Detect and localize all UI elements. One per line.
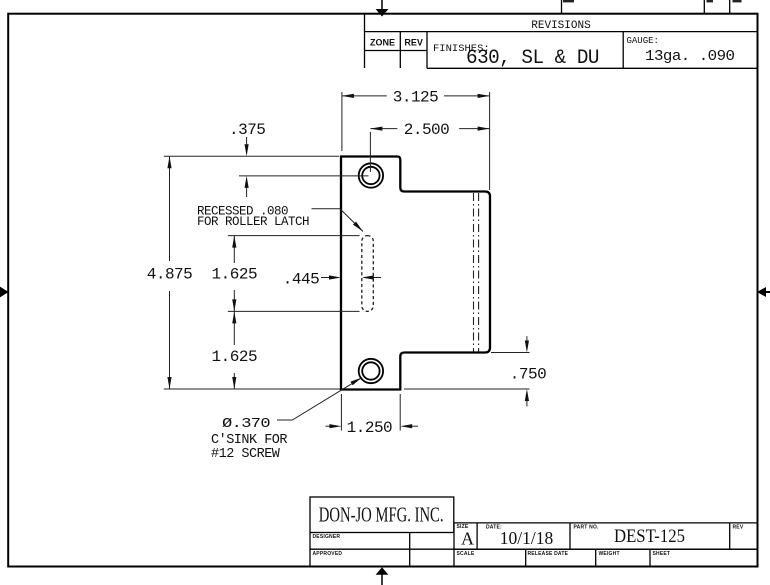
top cut-off text smudges <box>563 0 742 2</box>
svg-text:A: A <box>461 529 474 549</box>
right center marker <box>757 287 770 297</box>
svg-text:GAUGE:: GAUGE: <box>627 36 659 46</box>
svg-text:REV: REV <box>733 525 744 531</box>
svg-text:Ø.370: Ø.370 <box>222 417 270 432</box>
recess leader line <box>312 209 364 232</box>
svg-text:.375: .375 <box>229 121 265 139</box>
svg-text:.445: .445 <box>283 271 319 289</box>
svg-text:2.500: 2.500 <box>404 121 450 139</box>
left center marker <box>0 287 9 298</box>
svg-text:DESIGNER: DESIGNER <box>313 534 341 540</box>
svg-text:4.875: 4.875 <box>147 266 193 284</box>
bottom center marker <box>376 567 389 585</box>
svg-text:SHEET: SHEET <box>653 551 671 557</box>
bottom hole outer <box>359 359 383 383</box>
top hole inner <box>362 167 379 184</box>
svg-text:WEIGHT: WEIGHT <box>599 551 620 557</box>
hole leader line <box>277 378 362 421</box>
svg-text:3.125: 3.125 <box>393 89 439 107</box>
dimension 1.625 upper <box>228 236 360 312</box>
svg-text:1.625: 1.625 <box>212 266 258 284</box>
svg-text:630, SL & DU: 630, SL & DU <box>466 47 599 70</box>
svg-text:REV: REV <box>404 38 423 48</box>
top cut-off table remnant verticals <box>562 0 730 14</box>
recess dashed outline <box>362 236 374 312</box>
revisions table lines <box>365 14 757 69</box>
svg-text:#12 SCREW: #12 SCREW <box>211 447 281 462</box>
dimension 3.125 <box>342 92 490 190</box>
bottom hole inner <box>362 362 379 379</box>
bend line left <box>473 193 475 352</box>
svg-text:10/1/18: 10/1/18 <box>500 528 554 548</box>
svg-text:REVISIONS: REVISIONS <box>531 20 591 32</box>
title block lines <box>310 497 757 566</box>
svg-text:SCALE: SCALE <box>457 551 475 557</box>
svg-text:.750: .750 <box>510 366 546 384</box>
svg-text:DEST-125: DEST-125 <box>614 526 685 547</box>
top center marker <box>376 0 389 17</box>
dimension 1.250 <box>326 394 419 431</box>
svg-text:1.250: 1.250 <box>347 419 393 437</box>
dimension .750 <box>404 336 530 406</box>
dimension 1.625 lower <box>233 311 235 389</box>
svg-text:RELEASE DATE: RELEASE DATE <box>528 551 569 557</box>
svg-text:C'SINK FOR: C'SINK FOR <box>211 433 287 448</box>
svg-text:FOR ROLLER LATCH: FOR ROLLER LATCH <box>197 215 309 229</box>
svg-text:DON-JO MFG. INC.: DON-JO MFG. INC. <box>319 503 444 527</box>
svg-text:APPROVED: APPROVED <box>313 551 343 557</box>
top hole outer <box>359 163 383 187</box>
svg-text:1.625: 1.625 <box>212 348 258 366</box>
svg-text:PART NO.: PART NO. <box>574 525 600 531</box>
part outline <box>341 157 490 390</box>
svg-text:ZONE: ZONE <box>370 38 395 48</box>
dimension 4.875 <box>164 156 340 389</box>
svg-text:13ga. .090: 13ga. .090 <box>645 48 735 65</box>
bend line right <box>478 193 480 352</box>
dimension 2.500 <box>370 129 489 172</box>
